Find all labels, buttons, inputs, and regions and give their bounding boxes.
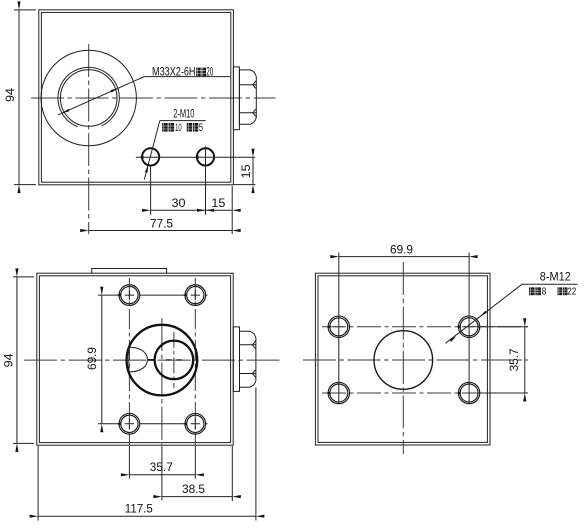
view2 bolt column centerline left (128, 278, 130, 445)
view1 block outline outer (39, 10, 234, 185)
svg-text:35.7: 35.7 (150, 462, 173, 474)
leader arrow (145, 165, 148, 173)
view1 hole left 2-M10 (142, 148, 159, 165)
dim 15 view1 bottom (206, 209, 233, 211)
view1 centerline vertical (88, 44, 90, 234)
view2 top tab (92, 269, 167, 274)
wedge arrows on bolt holes view3 (326, 325, 461, 395)
view3 block outline outer (315, 273, 490, 445)
view2 bolt hole top-left (119, 285, 206, 434)
svg-text:94: 94 (5, 87, 17, 102)
view3 bolt column line left (338, 253, 340, 404)
diameter arrows on thread circle (62, 109, 69, 113)
bolt center horizontal ticks view3 (334, 327, 475, 393)
svg-text:69.9: 69.9 (87, 347, 99, 370)
label deep8 spotface22 (529, 287, 567, 295)
svg-text:2-M10: 2-M10 (173, 108, 194, 120)
dim 15 view1 right vertical (234, 157, 255, 184)
view1 diameter dimension diagonal (58, 77, 145, 115)
leader 8-M12 (445, 284, 522, 343)
dim 77.5 view1 (89, 230, 233, 232)
svg-text:8-M12: 8-M12 (540, 271, 571, 283)
dim 38.5 view2 (162, 446, 232, 501)
svg-text:22: 22 (567, 287, 576, 298)
svg-text:69.9: 69.9 (390, 245, 413, 257)
view2 hex plug flange (233, 327, 239, 392)
svg-text:30: 30 (172, 198, 186, 210)
view2 centerline vertical small circle (173, 332, 175, 388)
view2 block outline outer (37, 273, 233, 445)
holes centerline (136, 156, 255, 158)
view2 centerline horizontal (24, 359, 282, 361)
view1 hex plug body (239, 70, 256, 124)
view1 hole right 2-M10 (197, 148, 214, 165)
view2 block outline inner (39, 276, 230, 443)
view2 bolt hole bottom-left (119, 413, 140, 434)
view3 center bore circle (374, 331, 433, 390)
small circle center ticks view2 (166, 359, 182, 361)
view2 bolt hole top-right (185, 285, 206, 306)
view1 centerline horizontal (31, 97, 276, 99)
view2 hex plug body (240, 331, 256, 387)
dim 94 view1 (14, 10, 36, 185)
view1 block outline inner (41, 12, 230, 182)
svg-text:94: 94 (4, 353, 16, 368)
dim 94 view2 (13, 277, 34, 444)
view1 hex plug flange (233, 67, 239, 130)
view2 bolt column centerline right (194, 278, 196, 445)
label underline M33 (145, 76, 231, 78)
label underline 2-M10 (160, 120, 206, 122)
label underline 8-M12 (522, 283, 578, 285)
svg-text:77.5: 77.5 (150, 218, 173, 230)
svg-text:38.5: 38.5 (182, 484, 205, 496)
svg-text:8: 8 (542, 287, 547, 298)
view2 centerline vertical main (161, 318, 163, 445)
view3 row centerline bottom (322, 392, 528, 394)
view3 block outline inner (318, 276, 487, 443)
view2 spring seat D-shape (129, 347, 148, 372)
hole right crosshair vertical (205, 147, 207, 168)
ext right edge down (231, 186, 233, 234)
hanzi blob deep (shen du) (196, 68, 206, 76)
view3 row centerline top (322, 326, 528, 328)
label M33X2-6H deep 20 (152, 67, 213, 79)
label deep10 spotface5 (162, 123, 198, 132)
dim 69.9 view3 (339, 256, 469, 258)
wedge arrows on bolt holes view2 (117, 293, 187, 425)
view3 centerline horizontal (303, 359, 528, 361)
view2 plug extension line (255, 387, 257, 520)
dim 117.5 view2 (38, 446, 256, 521)
view3 bolt hole bottom-left (328, 382, 349, 403)
centerline bold dash near small circle (147, 359, 155, 361)
svg-text:117.5: 117.5 (125, 504, 153, 516)
view3 bolt hole top-right (458, 316, 479, 337)
wedge arrow right hole (194, 156, 198, 159)
svg-text:10: 10 (175, 122, 182, 134)
view3 bolt hole bottom-right (458, 382, 479, 403)
leader 2-M10 (144, 121, 160, 180)
view2 port small circle (155, 341, 194, 380)
leader arrows on bolt circle (480, 311, 487, 317)
bolt center vertical ticks view2 (129, 290, 195, 429)
view2 bolt hole bottom-right (185, 413, 206, 434)
dim 69.9 view2 (101, 295, 103, 424)
dim 35.7 view2 (129, 474, 195, 476)
view3 bolt column line right (468, 253, 470, 404)
view3 bolt hole top-left (328, 316, 480, 404)
wedge arrow left hole (139, 156, 143, 159)
view3 centerline vertical (402, 262, 404, 454)
svg-text:15: 15 (241, 164, 253, 178)
view1 counterbore circle outer (41, 50, 136, 145)
dim 30 view1 (151, 166, 206, 215)
view1 thread circle with gap (58, 67, 119, 126)
svg-text:15: 15 (211, 198, 225, 210)
dim 35.7 view3 (477, 327, 528, 393)
view2 bolt rows extension lines (98, 295, 208, 424)
view1 bore circle (60, 70, 117, 127)
view2 cavity big circle (127, 325, 198, 396)
svg-text:5: 5 (199, 122, 203, 134)
svg-text:35.7: 35.7 (509, 348, 521, 371)
